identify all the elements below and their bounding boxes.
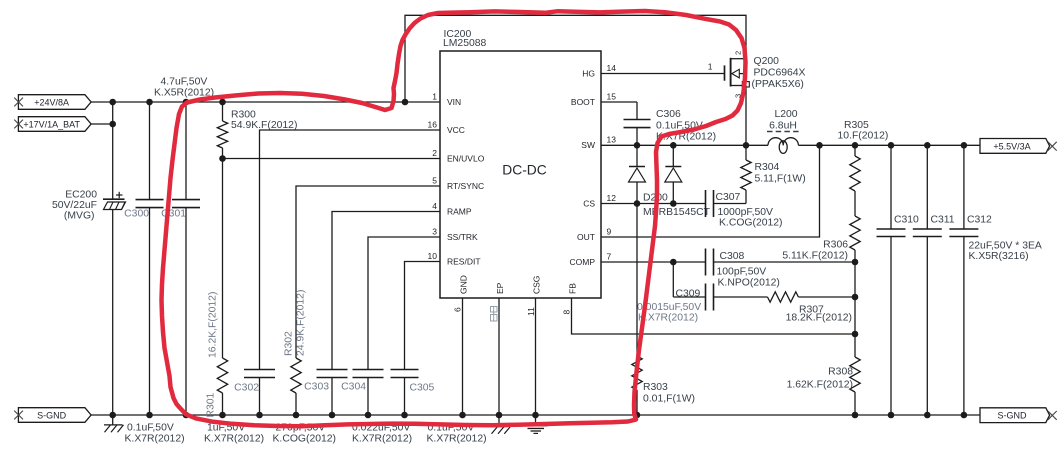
svg-text:R302: R302 [284, 331, 295, 356]
label D200 MBRB1545CT [643, 193, 711, 219]
svg-text:+17V/1A_BAT: +17V/1A_BAT [23, 119, 80, 129]
wire CSG pin 11 to rail [535, 298, 537, 415]
svg-text:5.11K.F(2012): 5.11K.F(2012) [782, 251, 848, 262]
svg-text:0.01,F(1W): 0.01,F(1W) [643, 394, 695, 405]
resistor R302 24.9K [291, 358, 301, 415]
svg-text:11: 11 [526, 307, 536, 316]
diode D200 second [665, 145, 682, 203]
pin numbers left [428, 91, 438, 261]
svg-text:K.X7R(2012): K.X7R(2012) [427, 434, 487, 445]
svg-text:C300: C300 [124, 209, 149, 220]
capacitor C312 [949, 145, 978, 415]
svg-text:6: 6 [452, 307, 462, 312]
svg-text:K.X5R(3216): K.X5R(3216) [969, 251, 1029, 262]
pin EP thermal korean note [491, 307, 498, 322]
svg-text:100pF,50V: 100pF,50V [717, 267, 767, 278]
svg-text:+24V/8A: +24V/8A [34, 97, 69, 107]
wire CS net [601, 203, 706, 205]
resistor R304 5.11 1W [741, 145, 751, 203]
svg-text:SS/TRK: SS/TRK [447, 232, 478, 242]
resistor R300 54.9K [217, 102, 227, 159]
svg-text:MBRB1545CT: MBRB1545CT [643, 207, 711, 218]
svg-text:K.X7R(2012): K.X7R(2012) [125, 434, 185, 445]
capacitor EC200 (electrolytic 50V/22uF) [103, 102, 126, 415]
pin names right [570, 68, 596, 267]
capacitor C310 [877, 145, 906, 415]
svg-text:3: 3 [432, 226, 437, 236]
resistor R305 10ohm [850, 145, 860, 216]
svg-text:R304: R304 [755, 162, 780, 173]
svg-text:K.COG(2012): K.COG(2012) [719, 218, 783, 229]
capacitor C300 [136, 102, 164, 415]
port +24V/8A [14, 95, 91, 110]
svg-text:C310: C310 [894, 215, 919, 226]
svg-text:R305: R305 [844, 120, 869, 131]
wire COMP net [601, 261, 706, 263]
resistor R303 0.01 1W shunt [632, 204, 642, 416]
svg-text:2: 2 [432, 148, 437, 158]
svg-text:4: 4 [432, 201, 437, 211]
port S-GND right [980, 408, 1057, 423]
ground earth symbol CSG [524, 415, 548, 433]
wire S-GND bottom rail [91, 414, 980, 416]
capacitor C307 [706, 190, 747, 217]
wire FB pin 8 net [572, 298, 856, 334]
svg-text:7: 7 [607, 251, 612, 261]
wire +24V input rail y=102 [91, 101, 440, 103]
wire +17V input stub [91, 123, 113, 125]
svg-text:R308: R308 [828, 367, 853, 378]
svg-text:CS: CS [583, 198, 595, 208]
svg-text:16: 16 [428, 119, 438, 129]
svg-text:9: 9 [607, 226, 612, 236]
transistor Q200 PDC6964X [725, 58, 750, 146]
port S-GND left [14, 408, 91, 423]
wire EP pin to rail [498, 298, 500, 415]
wire RAMP to C303 [332, 212, 440, 370]
wire OUT sense to output rail [601, 145, 820, 237]
svg-text:2: 2 [734, 51, 743, 55]
capacitor C303 [317, 370, 348, 416]
label C306 [656, 109, 716, 143]
svg-text:K.NPO(2012): K.NPO(2012) [718, 278, 780, 289]
svg-text:K.X7R(2012): K.X7R(2012) [204, 434, 264, 445]
svg-text:R301: R301 [206, 392, 217, 417]
svg-text:EP: EP [495, 282, 505, 294]
pin numbers bottom rotated [452, 307, 571, 316]
svg-text:VIN: VIN [447, 97, 461, 107]
svg-text:15: 15 [607, 91, 617, 101]
wire +5.5V output rail [798, 144, 980, 146]
svg-text:+5.5V/3A: +5.5V/3A [993, 141, 1030, 151]
label R308 [787, 367, 854, 391]
svg-text:18.2K.F(2012): 18.2K.F(2012) [786, 313, 852, 324]
label 4.7uF cap value [154, 77, 214, 99]
svg-text:S-GND: S-GND [37, 410, 67, 420]
svg-text:SW: SW [581, 140, 595, 150]
resistor R306 5.11K [850, 216, 860, 357]
svg-text:OUT: OUT [577, 232, 595, 242]
capacitor C305 [391, 370, 419, 416]
resistor R308 1.62K [850, 357, 860, 415]
svg-text:C302: C302 [234, 383, 259, 394]
svg-text:RAMP: RAMP [447, 206, 472, 216]
label R305 [838, 120, 889, 142]
capacitor C304 [353, 370, 384, 416]
svg-text:0.1uF,50V: 0.1uF,50V [127, 423, 174, 434]
svg-text:S-GND: S-GND [998, 411, 1028, 421]
svg-text:10: 10 [428, 251, 438, 261]
svg-text:DC-DC: DC-DC [502, 163, 546, 178]
inductor L200 6.8uH [768, 138, 798, 154]
svg-text:BOOT: BOOT [571, 97, 595, 107]
resistor R307 18.2K [768, 292, 856, 302]
wire BOOT to C306 [601, 101, 637, 103]
label R307 [786, 305, 852, 324]
svg-text:5: 5 [432, 175, 437, 185]
wire SS/TRK to C304 [368, 237, 440, 370]
label C309 value [637, 302, 701, 324]
wire top feed from VIN node to Q200 drain [405, 15, 746, 102]
svg-text:K.COG(2012): K.COG(2012) [273, 434, 337, 445]
svg-text:24.9K,F(2012): 24.9K,F(2012) [296, 290, 307, 356]
svg-text:C303: C303 [304, 382, 329, 393]
svg-text:16.2K,F(2012): 16.2K,F(2012) [208, 292, 219, 358]
svg-text:VCC: VCC [447, 125, 465, 135]
label output caps value [969, 241, 1042, 263]
svg-text:C307: C307 [716, 192, 741, 203]
svg-text:LM25088: LM25088 [443, 38, 487, 49]
svg-text:C311: C311 [931, 215, 955, 226]
svg-text:C309: C309 [676, 289, 701, 300]
svg-text:1: 1 [432, 91, 437, 101]
ground chassis symbol EP [492, 415, 511, 434]
label R304 [755, 162, 806, 185]
pin names bottom rotated [458, 275, 577, 294]
capacitor C302 [244, 370, 275, 416]
svg-text:PDC6964X: PDC6964X [754, 68, 806, 79]
port +5.5V/3A [980, 139, 1057, 154]
wire RES/DIT to C305 [405, 262, 441, 370]
svg-text:C304: C304 [341, 382, 366, 393]
svg-text:C301: C301 [161, 209, 186, 220]
svg-text:C306: C306 [656, 109, 681, 120]
svg-text:C305: C305 [410, 383, 435, 394]
svg-text:R306: R306 [823, 240, 848, 251]
IC U IC200 LM25088 box [440, 51, 601, 298]
label Q200 refdes [752, 56, 806, 90]
svg-text:1.62K.F(2012): 1.62K.F(2012) [787, 380, 853, 391]
svg-text:8: 8 [561, 310, 571, 315]
wire SW node [601, 144, 768, 146]
svg-text:K.X7R(2012): K.X7R(2012) [638, 313, 698, 324]
port +17V/1A_BAT [14, 117, 91, 132]
svg-text:K.X7R(2012): K.X7R(2012) [352, 434, 412, 445]
svg-text:5.11,F(1W): 5.11,F(1W) [755, 174, 806, 185]
capacitor C309 [706, 284, 768, 311]
wire COMP branch down to C309 [672, 262, 674, 297]
svg-text:1000pF,50V: 1000pF,50V [718, 207, 774, 218]
label IC200 LM25088 [443, 29, 487, 49]
svg-text:L200: L200 [774, 109, 797, 120]
svg-text:6.8uH: 6.8uH [769, 121, 797, 132]
svg-text:C312: C312 [967, 215, 992, 226]
svg-text:Q200: Q200 [754, 56, 780, 67]
svg-text:EC200: EC200 [65, 190, 97, 201]
pin names left [447, 97, 485, 267]
svg-text:CSG: CSG [531, 276, 541, 294]
svg-text:4.7uF,50V: 4.7uF,50V [161, 77, 208, 88]
svg-text:RES/DIT: RES/DIT [447, 256, 481, 266]
capacitor C311 [913, 145, 942, 415]
svg-text:COMP: COMP [570, 257, 596, 267]
svg-text:(MVG): (MVG) [64, 211, 95, 222]
svg-text:EN/UVLO: EN/UVLO [447, 153, 485, 163]
wire EN/UVLO [223, 158, 441, 160]
svg-text:13: 13 [607, 135, 617, 145]
label C307 [716, 192, 783, 229]
label L200 6.8uH [767, 109, 799, 132]
svg-text:FB: FB [567, 283, 577, 294]
resistor R301 16.2K [217, 159, 227, 416]
capacitor C301 [172, 102, 200, 415]
label R306 [782, 240, 848, 262]
svg-text:(PPAK5X6): (PPAK5X6) [752, 79, 804, 90]
wire HG to Q200 gate [601, 73, 725, 75]
label R303 [643, 382, 695, 405]
capacitor C308 [706, 249, 856, 276]
red annotation loop [162, 11, 746, 426]
label EC200 value [52, 190, 97, 222]
diode D200 first [629, 145, 646, 203]
label bottom cap values row [125, 423, 487, 445]
pin numbers right [607, 63, 617, 262]
svg-text:1: 1 [708, 62, 713, 72]
svg-text:HG: HG [582, 68, 595, 78]
capacitor C306 [624, 102, 651, 145]
svg-text:14: 14 [607, 63, 617, 73]
svg-text:50V/22uF: 50V/22uF [52, 200, 97, 211]
svg-text:RT/SYNC: RT/SYNC [447, 181, 484, 191]
wire RT/SYNC to R302 [296, 186, 440, 358]
wire VCC to C302 [260, 130, 441, 370]
label R300 [231, 110, 297, 132]
svg-text:12: 12 [607, 193, 617, 203]
ground chassis symbol left [104, 415, 124, 432]
svg-text:10.F(2012): 10.F(2012) [838, 131, 889, 142]
label C308 [717, 251, 780, 289]
svg-text:22uF,50V * 3EA: 22uF,50V * 3EA [969, 241, 1042, 252]
wire GND pin 6 to rail [462, 298, 464, 415]
svg-text:GND: GND [458, 275, 468, 294]
svg-text:C308: C308 [720, 251, 745, 262]
svg-text:R300: R300 [231, 110, 256, 121]
svg-text:R303: R303 [643, 382, 668, 393]
